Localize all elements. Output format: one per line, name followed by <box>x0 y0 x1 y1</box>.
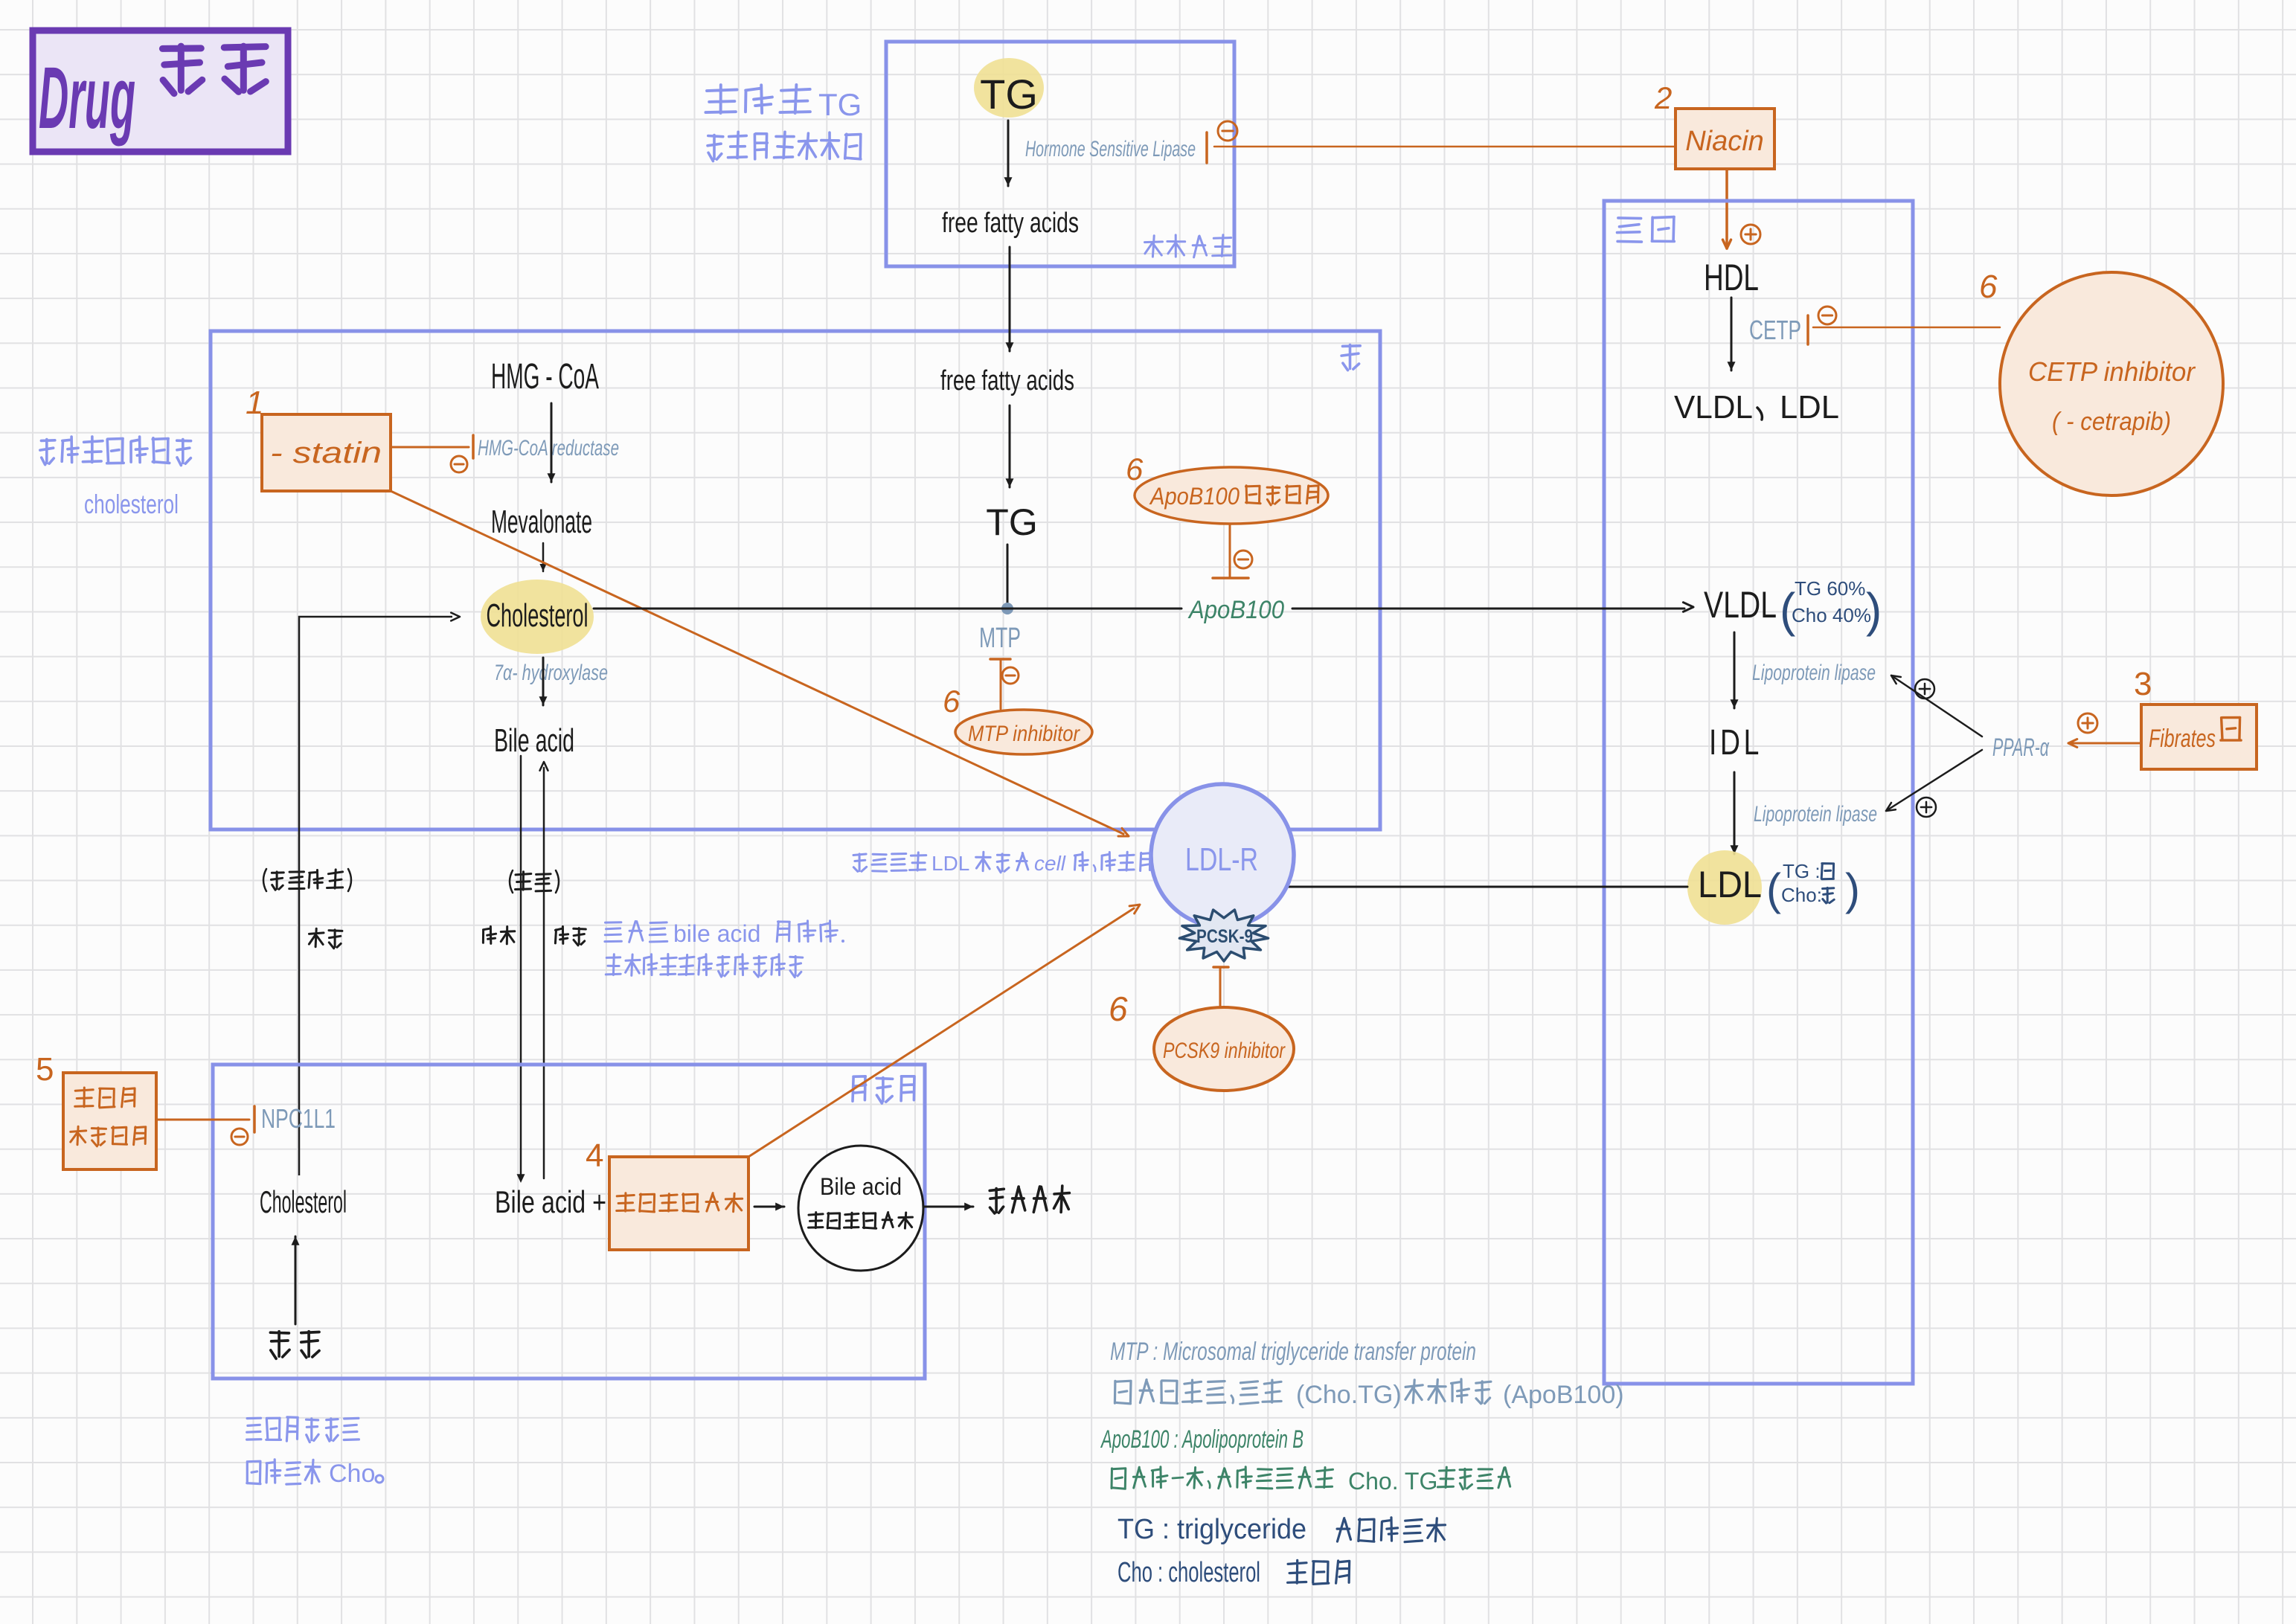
label 食物 (food) <box>270 1332 319 1359</box>
svg-text:CETP: CETP <box>1749 315 1801 345</box>
text TG (liver) <box>986 501 1037 543</box>
title box frame <box>33 31 288 152</box>
svg-text:Drug: Drug <box>39 49 135 147</box>
drug box statin <box>262 414 391 491</box>
label 脂肪組織 <box>1145 235 1231 257</box>
text NPC1L1 <box>261 1103 336 1134</box>
svg-text:MTP : Microsomal triglyc: MTP : Microsomal triglyceride transfer p… <box>1110 1338 1476 1366</box>
text Fibrates 類 <box>2149 717 2241 753</box>
wire ApoB100-inh down <box>1229 524 1231 577</box>
svg-text:Hormone Sensitive Lipase: Hormone Sensitive Lipase <box>1025 137 1196 161</box>
svg-text:Cho : cholesterol: Cho : cholesterol <box>1117 1557 1260 1588</box>
arrow Fibrates to PPAR <box>2068 739 2141 748</box>
arrow complex to excretion <box>923 1203 973 1211</box>
legend ApoB100 definition <box>1100 1425 1303 1454</box>
svg-text:Cho. TG: Cho. TG <box>1348 1468 1437 1495</box>
label 1 (statin) <box>246 385 263 421</box>
svg-text:TG : triglyceride: TG : triglyceride <box>1117 1514 1306 1545</box>
text -statin <box>270 437 382 469</box>
plus sign (Niacin stimulates HDL) <box>1741 225 1760 244</box>
wire resin to LDL-R (upregulation) <box>748 905 1140 1157</box>
legend Cho definition <box>1117 1557 1350 1588</box>
note cholesterol (blue) <box>84 489 179 519</box>
text Niacin <box>1685 126 1764 157</box>
svg-text:ApoB100: ApoB100 <box>1149 483 1240 510</box>
svg-text:LDL: LDL <box>1780 389 1839 426</box>
label 吸收 <box>309 928 342 949</box>
minus sign (MTP inhibition) <box>1002 667 1019 684</box>
wire MTP inhibitor to MTP <box>1000 659 1002 709</box>
svg-text:VLDL: VLDL <box>1674 389 1753 426</box>
inhibit bar (MTP) <box>990 658 1010 661</box>
label (膽管) <box>510 870 559 893</box>
junction dot (MTP) <box>1001 603 1013 614</box>
svg-text:HMG-CoA reductase: HMG-CoA reductase <box>478 436 619 460</box>
text free fatty acids (adipose) <box>942 208 1079 239</box>
wire PCSK9 inhibitor to PCSK-9 <box>1219 967 1222 1007</box>
text PCSK9 inhibitor <box>1163 1039 1286 1063</box>
svg-text:3: 3 <box>2134 666 2152 702</box>
cell circle LDL-R <box>1151 784 1294 927</box>
svg-text:HDL: HDL <box>1704 257 1759 298</box>
Cholesterol highlight blob <box>481 580 594 654</box>
svg-text:TG: TG <box>980 71 1038 118</box>
title text Drug <box>39 49 135 147</box>
label 腸胃道 <box>853 1076 914 1103</box>
svg-text:CETP inhibitor: CETP inhibitor <box>2028 356 2196 387</box>
wire chol-abs-inh to NPC1L1 <box>156 1119 249 1121</box>
arrow Cholesterol to Bile acid <box>539 658 548 705</box>
svg-text:): ) <box>1845 864 1860 914</box>
svg-text:cholesterol: cholesterol <box>84 489 179 519</box>
label 肝 <box>1341 345 1360 370</box>
arrow PPAR to LPL lower <box>1886 750 1982 811</box>
TG highlight blob <box>974 58 1044 118</box>
text PPAR-a <box>1992 734 2050 762</box>
note 會分解TG line1 <box>705 85 862 122</box>
drug ellipse MTP inhibitor <box>955 710 1092 754</box>
svg-text:4: 4 <box>586 1137 603 1174</box>
text CETP inhibitor <box>2028 356 2196 387</box>
svg-text:7α- hydroxylase: 7α- hydroxylase <box>494 661 608 685</box>
svg-text:TG: TG <box>986 501 1037 543</box>
svg-text:Niacin: Niacin <box>1685 126 1764 157</box>
note 將血中的LDL胞吞入cell內,分解掉 <box>853 852 1150 875</box>
text 膽酸結合樹脂 <box>617 1193 743 1212</box>
text HMG-CoA reductase <box>478 436 619 460</box>
svg-text:Cho 40%: Cho 40% <box>1792 604 1871 626</box>
inhibit bar (PCSK9) <box>1213 966 1228 969</box>
plus sign (LPL upper) <box>1915 679 1934 699</box>
svg-text:IDL: IDL <box>1709 723 1763 763</box>
plus sign (Fibrates stimulation) <box>2078 713 2097 733</box>
svg-text:NPC1L1: NPC1L1 <box>261 1103 336 1134</box>
label 6 (PCSK9 inhibitor) <box>1109 989 1128 1028</box>
note 可攝取到Cho <box>247 1460 383 1488</box>
inhibit bar on HSL <box>1205 132 1208 163</box>
label 6 (CETP inhibitor) <box>1979 269 1998 305</box>
inhibit bar (NPC1L1) <box>253 1106 256 1132</box>
svg-text:Fibrates: Fibrates <box>2149 725 2216 753</box>
text Lipoprotein lipase (lower) <box>1754 802 1877 827</box>
inhibit bar (ApoB100) <box>1213 577 1248 580</box>
drug box 膽酸結合樹脂 <box>609 1157 748 1250</box>
drug ellipse ApoB100 合成抑制 <box>1135 467 1328 524</box>
text HDL <box>1704 257 1759 298</box>
arrow IDL to LDL <box>1731 772 1739 854</box>
arrow HMG-CoA to Mevalonate <box>548 403 556 482</box>
svg-text:Mevalonate: Mevalonate <box>491 504 592 540</box>
label 6 (MTP inhibitor) <box>943 684 961 719</box>
wire LDL to LDL-R <box>1271 882 1687 891</box>
text ApoB100 (on line) <box>1187 596 1284 624</box>
arrow adipose ffa to liver ffa <box>1006 247 1014 351</box>
text Bile acid 膽酸結合樹脂 (complex) <box>809 1173 913 1228</box>
label 血管 <box>1617 217 1675 243</box>
wire bile recycle line <box>540 762 548 1178</box>
svg-text:( - cetrapib): ( - cetrapib) <box>2052 408 2171 436</box>
text Cholesterol (GI) <box>260 1184 347 1219</box>
arrow resin to complex <box>754 1203 784 1211</box>
svg-text:Bile acid: Bile acid <box>494 722 574 759</box>
svg-text:VLDL: VLDL <box>1704 584 1777 626</box>
text Hormone Sensitive Lipase <box>1025 137 1196 161</box>
text free fatty acids (liver) <box>940 365 1074 397</box>
note 人類從食物中 <box>247 1417 359 1442</box>
minus sign (CETP inhibition) <box>1818 306 1836 324</box>
note 產生游離脂肪酸 line2 <box>708 132 861 161</box>
circle bile acid complex <box>798 1146 923 1271</box>
svg-text:2: 2 <box>1654 80 1672 115</box>
arrow TG to free fatty acids <box>1004 121 1013 186</box>
wire CETP inhibitor to CETP <box>1813 327 2000 329</box>
LDL highlight blob <box>1687 850 1762 925</box>
svg-text:6: 6 <box>1109 989 1128 1028</box>
text Bile acid (liver) <box>494 722 574 759</box>
label 排出體外 (excreted) <box>990 1186 1069 1213</box>
text 膽固醇吸收抑制 <box>71 1088 146 1146</box>
text VLDL <box>1704 584 1777 626</box>
svg-text:Lipoprotein lipase: Lipoprotein lipase <box>1752 661 1876 685</box>
plus sign (LPL lower) <box>1917 797 1936 817</box>
wire cholesterol absorption to liver <box>299 613 460 1176</box>
svg-text:Cholesterol: Cholesterol <box>487 597 589 634</box>
drug box Fibrates <box>2141 705 2257 769</box>
starburst PCSK-9 <box>1179 910 1268 961</box>
wire Niacin to HSL <box>1214 146 1675 148</box>
text LDL <box>1698 864 1762 905</box>
wire bile secretion line <box>517 756 525 1183</box>
svg-text:LDL-R: LDL-R <box>1185 841 1258 878</box>
drug box 膽固醇吸收抑制 <box>63 1073 156 1169</box>
svg-text:PCSK-9: PCSK-9 <box>1196 926 1253 947</box>
label 2 (Niacin) <box>1654 80 1672 115</box>
label 5 <box>36 1051 54 1088</box>
box GI tract (腸胃道) <box>213 1065 925 1379</box>
svg-text:Lipoprotein lipase: Lipoprotein lipase <box>1754 802 1877 827</box>
legend MTP explanation <box>1115 1379 1623 1409</box>
text PCSK-9 <box>1196 926 1253 947</box>
svg-text:5: 5 <box>36 1051 54 1088</box>
minus sign (HSL inhibition) <box>1218 121 1237 141</box>
svg-text:PPAR-α: PPAR-α <box>1992 734 2050 762</box>
text (-cetrapib) <box>2052 408 2171 436</box>
label 4 <box>586 1137 603 1174</box>
label 分泌 <box>483 926 514 944</box>
wire statin to HMG-CoA reductase <box>391 446 469 449</box>
svg-text:Cho: Cho <box>329 1460 375 1488</box>
svg-text:Bile acid: Bile acid <box>820 1173 902 1200</box>
minus sign (statin inhibition) <box>451 456 467 472</box>
text LDL-R <box>1185 841 1258 878</box>
text VLDL.LDL <box>1674 389 1839 426</box>
note 人体中bile acid用完後 <box>605 920 844 947</box>
arrow PPAR to LPL upper <box>1891 675 1982 736</box>
svg-text:TG :: TG : <box>1783 860 1821 882</box>
arrow HDL to VLDL LDL <box>1728 298 1736 370</box>
wire ApoB100 line to VLDL <box>1292 603 1693 612</box>
svg-text:TG: TG <box>818 87 862 122</box>
svg-text:free fatty acids: free fatty acids <box>942 208 1079 239</box>
text LDL composition <box>1766 860 1860 914</box>
svg-text:ApoB100: ApoB100 <box>1187 596 1284 624</box>
drug circle CETP inhibitor <box>2000 272 2223 495</box>
arrow ffa to TG (liver) <box>1006 405 1014 487</box>
svg-text:bile acid: bile acid <box>673 920 760 947</box>
box liver (肝) <box>211 331 1380 829</box>
text MTP inhibitor <box>968 722 1080 746</box>
text ApoB100 合成抑制 <box>1149 483 1318 510</box>
svg-text:HMG - CoA: HMG - CoA <box>491 357 599 397</box>
svg-text:ApoB100 : Apolipoprotein B: ApoB100 : Apolipoprotein B <box>1100 1425 1303 1454</box>
arrow Niacin to HDL <box>1723 169 1731 248</box>
svg-text:(: ( <box>1766 864 1781 914</box>
svg-text:cell: cell <box>1034 852 1066 875</box>
label (肝門靜脈) <box>263 869 351 891</box>
svg-text:): ) <box>1866 583 1882 637</box>
text TG (adipose) <box>980 71 1038 118</box>
text Mevalonate <box>491 504 592 540</box>
box adipose tissue (脂肪組織) <box>886 42 1234 266</box>
drug box Niacin <box>1675 109 1774 169</box>
label 6 (ApoB100 inhibitor) <box>1126 452 1144 487</box>
text Cholesterol (liver) <box>487 597 589 634</box>
minus sign (ApoB100 inhibition) <box>1234 551 1252 568</box>
minus sign (NPC1L1 inhibition) <box>231 1129 248 1145</box>
wire TG down to ApoB100 line <box>1007 545 1009 609</box>
text HMG-CoA <box>491 357 599 397</box>
arrow VLDL to IDL <box>1731 632 1739 708</box>
text Bile acid + <box>495 1184 606 1219</box>
wire Cholesterol to ApoB100 line <box>594 608 1181 610</box>
text MTP <box>979 623 1021 654</box>
label 3 (Fibrates) <box>2134 666 2152 702</box>
svg-text:TG 60%: TG 60% <box>1795 577 1865 600</box>
wire statin to LDL-R (upregulation) <box>391 491 1129 836</box>
legend TG definition <box>1117 1514 1446 1545</box>
svg-text:Bile acid +: Bile acid + <box>495 1184 606 1219</box>
svg-text:6: 6 <box>1979 269 1998 305</box>
legend ApoB100 explanation <box>1112 1467 1510 1495</box>
svg-text:(Cho.TG): (Cho.TG) <box>1296 1381 1402 1409</box>
text 7a-hydroxylase <box>494 661 608 685</box>
inhibit bar on CETP <box>1806 315 1809 344</box>
svg-text:MTP inhibitor: MTP inhibitor <box>968 722 1080 746</box>
svg-text:6: 6 <box>943 684 961 719</box>
text VLDL composition <box>1780 577 1882 637</box>
svg-text:free fatty acids: free fatty acids <box>940 365 1074 397</box>
text CETP <box>1749 315 1801 345</box>
text Lipoprotein lipase (upper) <box>1752 661 1876 685</box>
svg-text:LDL: LDL <box>931 852 969 875</box>
svg-text:MTP: MTP <box>979 623 1021 654</box>
svg-text:- statin: - statin <box>270 437 382 469</box>
svg-text:LDL: LDL <box>1698 864 1762 905</box>
svg-text:Cho:: Cho: <box>1781 884 1822 906</box>
inhibit bar (statin) <box>472 435 475 458</box>
svg-text:(ApoB100): (ApoB100) <box>1503 1381 1624 1409</box>
note 肝臟會自行合成 <box>40 437 191 466</box>
note 大部分會送回肝臟再回收 <box>606 954 803 978</box>
arrow Mevalonate to Cholesterol <box>539 543 546 571</box>
label 回收 <box>555 926 586 945</box>
drug ellipse PCSK9 inhibitor <box>1154 1007 1294 1091</box>
title text 機轉 <box>162 46 266 94</box>
box blood vessel (血管) <box>1604 201 1913 1384</box>
legend MTP definition <box>1110 1338 1476 1366</box>
svg-text:6: 6 <box>1126 452 1144 487</box>
svg-text:PCSK9 inhibitor: PCSK9 inhibitor <box>1163 1039 1286 1063</box>
arrow food to Cholesterol <box>292 1236 300 1324</box>
text IDL <box>1709 723 1763 763</box>
svg-text:Cholesterol: Cholesterol <box>260 1184 347 1219</box>
